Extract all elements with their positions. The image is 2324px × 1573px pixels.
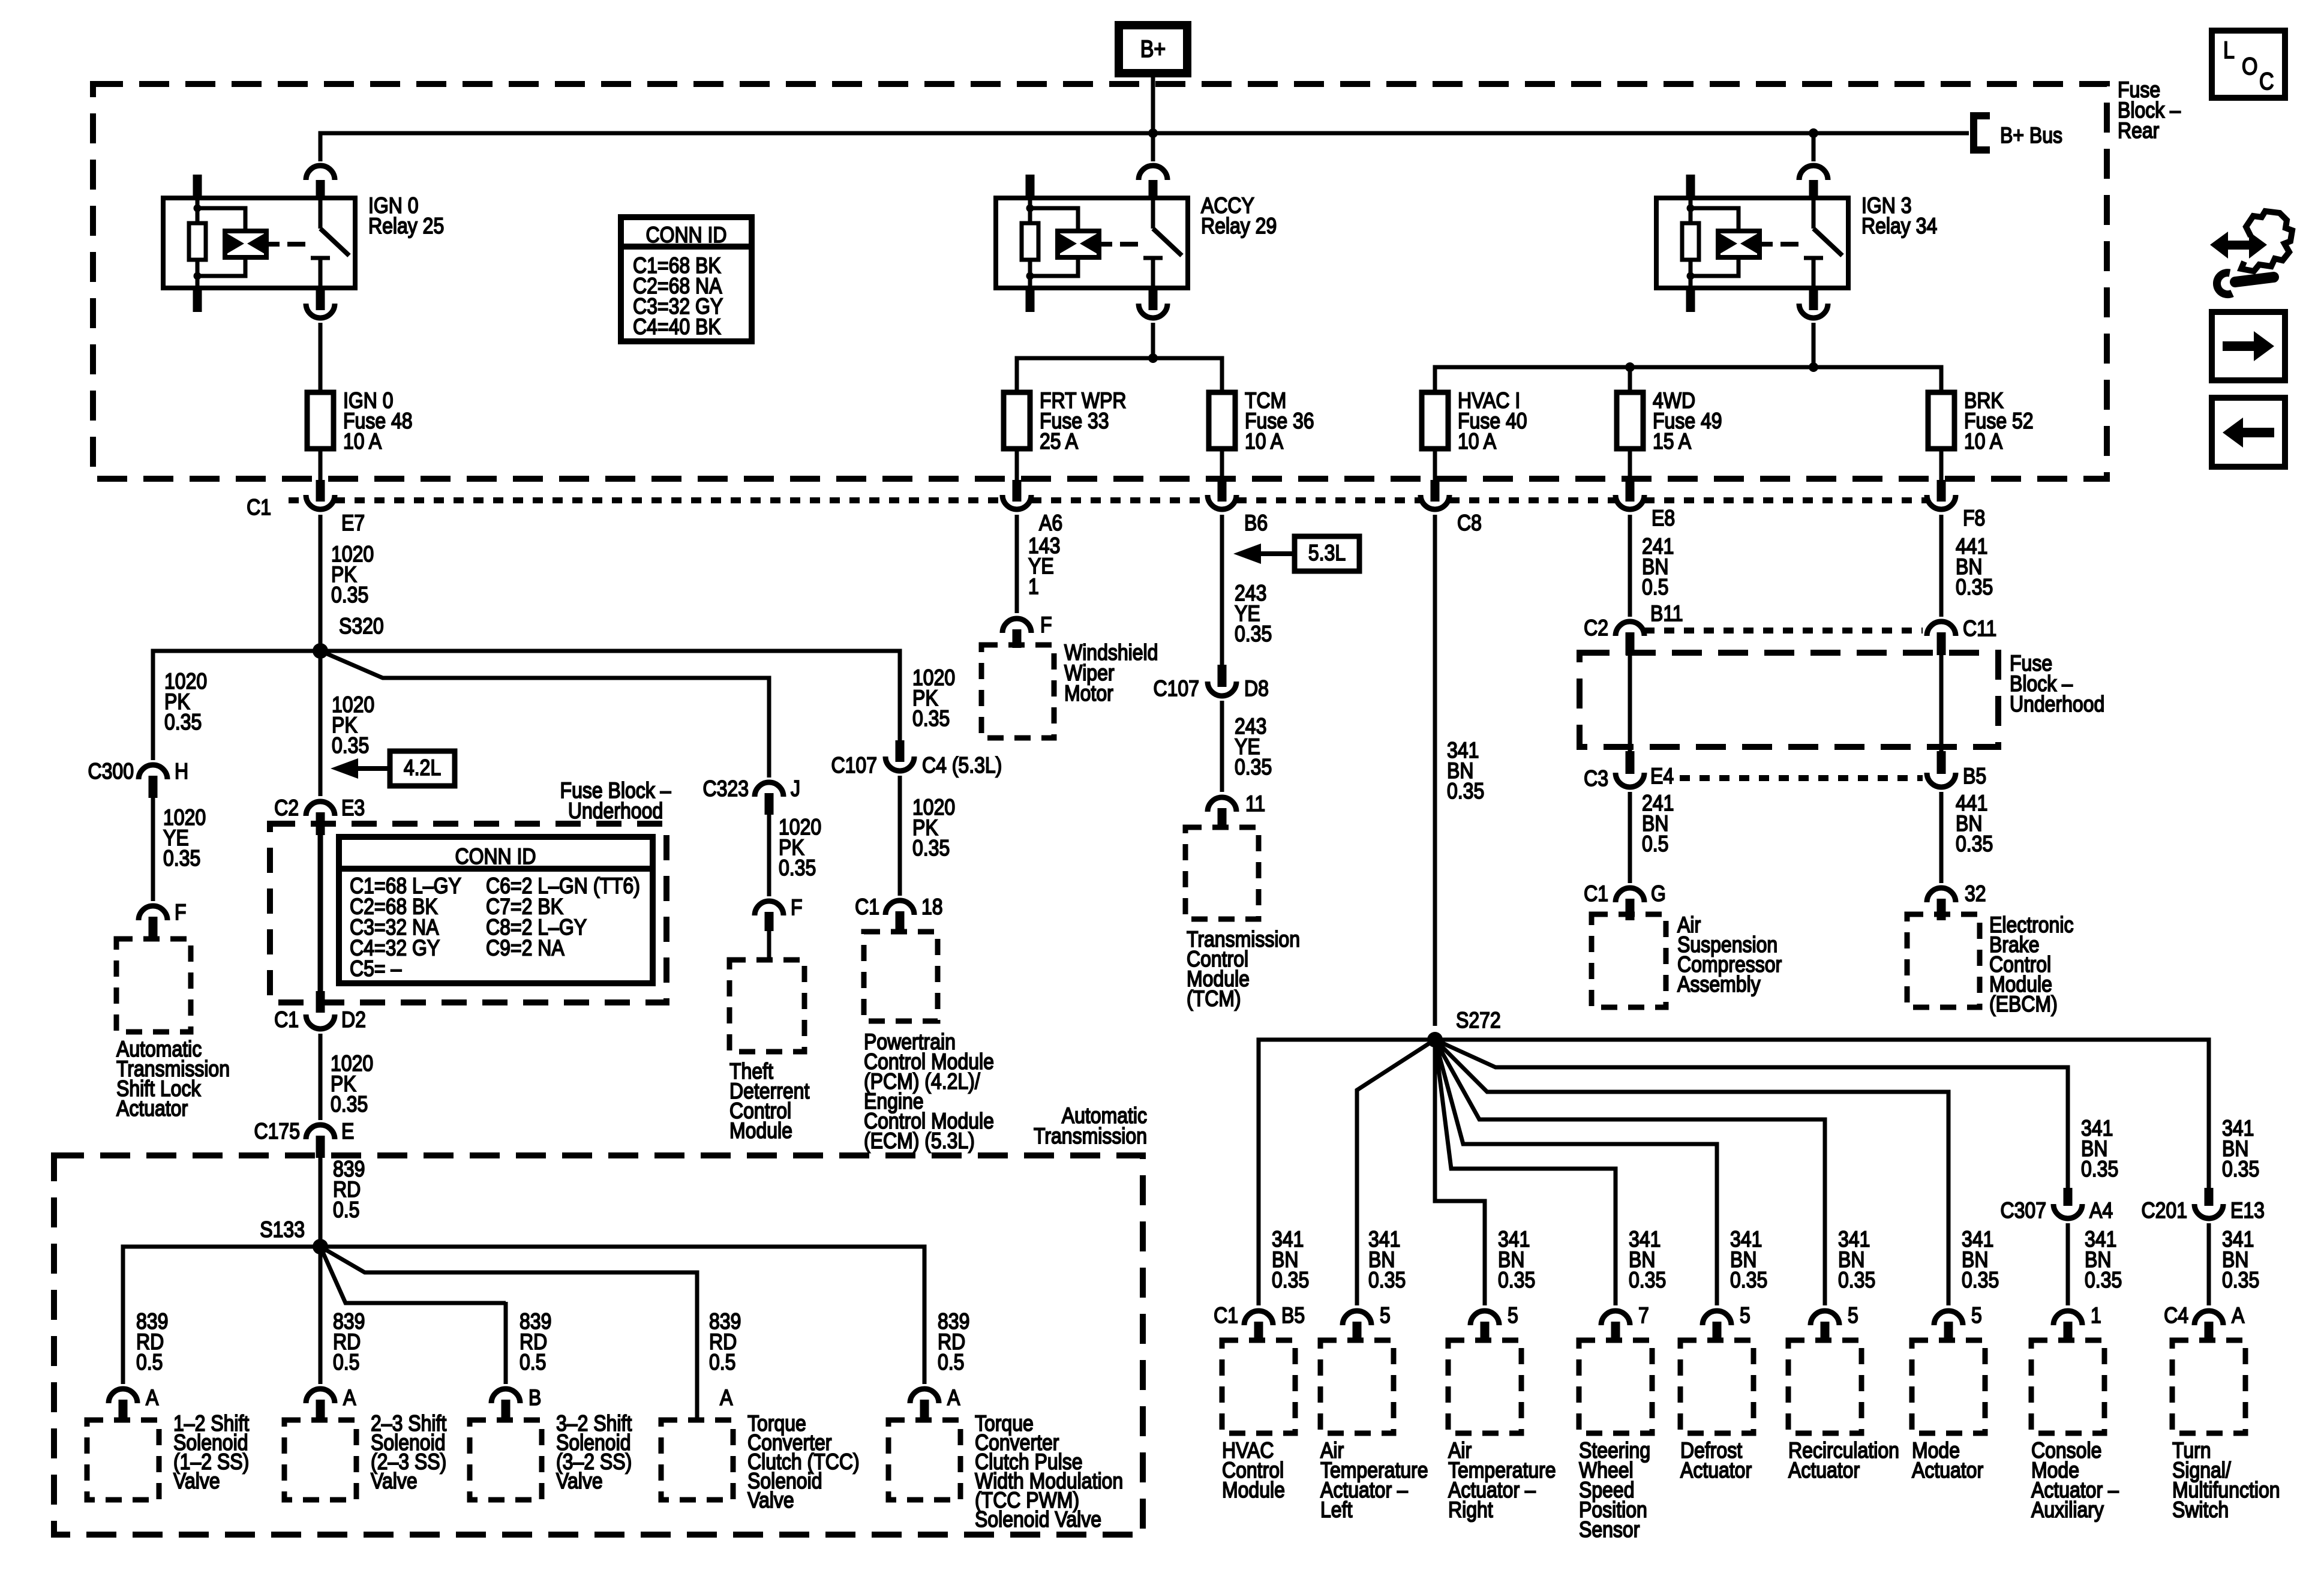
windshield wiper motor label [1064, 640, 1158, 706]
pin stub C2/E3 [316, 812, 325, 835]
svg-text:0.35: 0.35 [912, 836, 950, 861]
svg-text:Transmission: Transmission [1034, 1124, 1147, 1149]
svg-text:10 A: 10 A [343, 429, 382, 454]
svg-text:0.35: 0.35 [1272, 1268, 1309, 1293]
connector 32 EBCM [1927, 888, 1956, 902]
TCC solenoid label [747, 1411, 860, 1513]
pin stub PCM 18 [896, 911, 905, 933]
wire label 341 BN 0.35 [2085, 1227, 2122, 1293]
1-2 shift solenoid label [173, 1411, 250, 1494]
wire bus to IGN3 relay [1812, 133, 1816, 161]
svg-text:18: 18 [921, 894, 943, 920]
svg-text:C4: C4 [2164, 1303, 2188, 1328]
svg-text:B6: B6 [1244, 511, 1268, 536]
theft deterrent label [729, 1059, 810, 1143]
pin stub F theft [765, 912, 774, 931]
connector C1/E7 [306, 495, 335, 509]
wire label 341 BN 0.35 [1498, 1227, 1535, 1293]
wire C323 to theft F [767, 815, 771, 896]
svg-text:Assembly: Assembly [1677, 972, 1761, 997]
connector pin A 1-2 shift solenoid [109, 1389, 137, 1403]
svg-text:0.5: 0.5 [709, 1350, 735, 1375]
wire S133 to 3-2 shift solenoid [320, 1247, 506, 1303]
junction dot 4wd feed [1625, 362, 1635, 372]
connector C8 [1421, 495, 1449, 509]
wire F8 down [1939, 515, 1944, 617]
svg-text:5: 5 [1380, 1303, 1391, 1328]
svg-text:0.35: 0.35 [1235, 755, 1272, 780]
svg-text:C2: C2 [1584, 616, 1608, 641]
wire label 1020 PK 0.35 (S320-C107) [912, 665, 955, 731]
wire S272 to turn signal C201 [1435, 1040, 2209, 1190]
wire label 839 RD 0.5 (C175-S133) [333, 1157, 365, 1223]
svg-text:J: J [791, 776, 800, 801]
connector pin 5 Defrost Actuator [1703, 1311, 1731, 1325]
svg-text:L: L [2223, 37, 2235, 64]
wire 1-2 down [121, 1302, 125, 1384]
svg-text:Auxiliary: Auxiliary [2031, 1497, 2104, 1523]
svg-text:0.35: 0.35 [1956, 831, 1993, 857]
svg-text:G: G [1651, 881, 1666, 906]
wire relay25 to fuse48 [319, 323, 323, 392]
pin stub C323/J [765, 793, 774, 815]
connector pin A 2-3 shift solenoid [306, 1389, 335, 1403]
svg-text:Relay 25: Relay 25 [368, 214, 444, 239]
fuse 52 BRK 10A [1928, 392, 1954, 449]
svg-text:S272: S272 [1456, 1008, 1501, 1033]
pin stub C11 [1937, 632, 1946, 655]
svg-text:0.35: 0.35 [912, 706, 950, 731]
pin stub B11 [1626, 632, 1635, 655]
connector C107/D8 [1208, 682, 1236, 696]
Recirculation Actuator box [1788, 1340, 1861, 1433]
svg-text:C8: C8 [1457, 511, 1482, 536]
wire label 143 YE 1 [1028, 533, 1060, 599]
pin stub Air Temperature Actuator - Left [1353, 1322, 1362, 1342]
back page arrow box [2212, 398, 2285, 467]
wire S272 to steering wheel sensor [1435, 1040, 1616, 1305]
connector C300/H [139, 765, 167, 779]
svg-text:B+: B+ [1140, 36, 1166, 62]
Automatic Transmission dashed boundary [54, 1155, 1143, 1535]
svg-text:0.35: 0.35 [1235, 622, 1272, 647]
svg-text:0.35: 0.35 [2222, 1157, 2259, 1182]
connector C175/E [306, 1125, 335, 1139]
wire label 1020 PK 0.35 (S320-C2/E3) [332, 692, 374, 758]
wire bus to ACCY relay [1151, 133, 1155, 161]
wire S133 to TCC PWM solenoid [320, 1247, 924, 1384]
svg-text:F8: F8 [1963, 506, 1985, 531]
Fuse Block - Underhood dashed boundary (right) [1580, 653, 1998, 747]
svg-text:CONN ID: CONN ID [455, 844, 536, 869]
pin stub fuse33/A6 [1013, 480, 1022, 502]
wire label 839 RD 0.5 [520, 1309, 551, 1375]
3-2 shift solenoid box [470, 1420, 542, 1500]
connector C1/18 PCM [885, 900, 914, 915]
wire S272 to recirculation actuator [1435, 1040, 1825, 1305]
wire label 1020 YE 0.35 [163, 805, 206, 871]
svg-text:Valve: Valve [371, 1469, 418, 1494]
wire label 1020 PK 0.35 (C4-18) [912, 795, 955, 861]
2-3 shift solenoid box [284, 1420, 356, 1500]
svg-text:C107: C107 [1154, 676, 1199, 701]
wire label 243 YE 0.35 (B6-D8) [1235, 581, 1272, 647]
B+ power terminal [1119, 25, 1187, 73]
connector F shift lock [139, 906, 167, 920]
PCM/ECM label [864, 1029, 994, 1154]
connector pin B 3-2 shift solenoid [491, 1389, 520, 1403]
connector C1/G [1616, 888, 1644, 902]
relay 34 IGN 3 [1656, 166, 1848, 318]
svg-text:D2: D2 [341, 1007, 366, 1032]
wire label 341 BN 0.35 (S272-C307) [2081, 1116, 2118, 1182]
pin stub fuse52/F8 [1937, 480, 1946, 502]
callout 5.3L [1233, 536, 1359, 571]
svg-text:0.5: 0.5 [333, 1197, 359, 1223]
svg-text:1: 1 [2091, 1303, 2101, 1328]
wire label 241 BN 0.5 (E4-G) [1642, 791, 1674, 857]
svg-text:E: E [341, 1119, 354, 1144]
wire label 839 RD 0.5 [709, 1309, 741, 1375]
Defrost Actuator box [1680, 1340, 1753, 1433]
pin stub fuse49/E8 [1626, 480, 1635, 502]
connector pin 5 Air Temperature Actuator - Right [1470, 1311, 1499, 1325]
wire S320 to C300 [153, 651, 320, 760]
transmission control module box [1185, 827, 1259, 919]
svg-text:C1: C1 [274, 1007, 299, 1032]
B+ bus wire [320, 133, 1969, 161]
connector pin A Turn Signal/Multifunction Switch [2194, 1311, 2223, 1325]
svg-text:Underhood: Underhood [568, 798, 663, 824]
svg-text:C: C [2259, 68, 2274, 95]
pin stub Steering Wheel Speed Position Sensor [1611, 1322, 1620, 1342]
wire B+ to bus [1151, 73, 1155, 133]
pin stub Recirculation Actuator [1821, 1322, 1830, 1342]
svg-text:A: A [720, 1385, 733, 1410]
svg-text:0.35: 0.35 [1838, 1268, 1875, 1293]
wire label 1020 PK 0.35 (S320-C300) [164, 669, 207, 735]
wire F into theft module [767, 931, 771, 960]
pin stub Turn Signal/Multifunction Switch [2205, 1322, 2214, 1342]
svg-text:0.35: 0.35 [1730, 1268, 1767, 1293]
wire 3-2 shift down [504, 1303, 508, 1384]
wire S133 to TCC solenoid [320, 1247, 697, 1420]
shift lock actuator label [116, 1037, 230, 1121]
svg-text:A4: A4 [2089, 1198, 2113, 1223]
svg-text:B: B [529, 1385, 541, 1410]
wire fuse52 down [1939, 449, 1944, 480]
svg-text:5: 5 [1740, 1303, 1750, 1328]
svg-text:11: 11 [1245, 791, 1265, 816]
svg-text:E3: E3 [341, 795, 365, 821]
wire to fuse49 [1628, 367, 1632, 392]
pin stub fuse40/C8 [1431, 480, 1440, 502]
connector B6 [1208, 495, 1236, 509]
svg-text:0.5: 0.5 [333, 1350, 359, 1375]
connector C107/C4 (5.3L) [885, 757, 914, 771]
svg-text:Valve: Valve [747, 1488, 794, 1513]
Air Temperature Actuator - Left box [1320, 1340, 1394, 1433]
svg-text:0.35: 0.35 [2085, 1268, 2122, 1293]
connector pin B5 HVAC Control Module [1244, 1311, 1273, 1325]
svg-text:10 A: 10 A [1245, 429, 1284, 454]
svg-text:0.35: 0.35 [163, 846, 200, 871]
svg-text:0.35: 0.35 [331, 1092, 368, 1117]
svg-text:Actuator: Actuator [1680, 1458, 1752, 1483]
wire label 839 RD 0.5 [136, 1309, 168, 1375]
Defrost Actuator label [1680, 1438, 1752, 1483]
connector C1/D2 [306, 1014, 335, 1029]
wire through fuse block (441) [1939, 655, 1944, 751]
connector C307/A4 [2053, 1204, 2082, 1218]
Fuse Block - Rear label [2118, 77, 2181, 143]
connector 11 TCM [1208, 797, 1236, 812]
svg-text:Relay 34: Relay 34 [1861, 214, 1937, 239]
dotted boundary B11-C11 [1644, 628, 1923, 634]
svg-text:4.2L: 4.2L [404, 755, 441, 781]
svg-text:C307: C307 [2001, 1198, 2046, 1223]
svg-text:Module: Module [1222, 1478, 1285, 1503]
svg-text:C201: C201 [2142, 1198, 2187, 1223]
wire feed fuses 33/36 [1017, 358, 1222, 392]
wire through underhood fuse block [318, 835, 323, 991]
Fuse Block - Underhood dashed boundary (left) [270, 824, 666, 1002]
wire label 1020 PK 0.35 (E7-S320) [331, 542, 374, 608]
svg-text:A6: A6 [1039, 511, 1062, 536]
svg-text:Actuator: Actuator [116, 1096, 188, 1121]
svg-text:(EBCM): (EBCM) [1989, 992, 2058, 1017]
power distribution icon (arrow/part/wrench) [2210, 211, 2292, 295]
connector A6 [1002, 495, 1031, 509]
wire S320 to C107/C4 [320, 651, 900, 740]
wire D8 to TCM 11 [1220, 701, 1224, 792]
wire S272 to HVAC control module [1259, 1040, 1435, 1305]
svg-text:25 A: 25 A [1040, 429, 1079, 454]
svg-text:E13: E13 [2230, 1198, 2265, 1223]
pin stub fuse48/E7 [316, 480, 325, 502]
svg-text:5: 5 [1971, 1303, 1982, 1328]
pin stub C3 [1626, 751, 1635, 774]
pin stub HVAC Control Module [1254, 1322, 1263, 1342]
svg-text:C1: C1 [855, 894, 879, 920]
wire 2-3 down [319, 1302, 323, 1384]
svg-text:C11: C11 [1963, 616, 1996, 641]
svg-text:A: A [2232, 1303, 2245, 1328]
svg-text:Valve: Valve [556, 1469, 603, 1494]
svg-text:C1: C1 [247, 495, 271, 520]
Automatic Transmission label [1034, 1103, 1147, 1149]
wire label 341 BN 0.35 [1272, 1227, 1309, 1293]
air suspension label [1677, 912, 1782, 997]
wire label 341 BN 0.35 [1962, 1227, 1999, 1293]
svg-text:Actuator: Actuator [1912, 1458, 1983, 1483]
wire relay34 output [1812, 323, 1816, 367]
svg-text:E7: E7 [341, 511, 365, 536]
Mode Actuator box [1912, 1340, 1985, 1433]
CONN ID table (fuse block rear) [621, 217, 752, 341]
wire S272 to console C307 [1435, 1040, 2068, 1190]
wire label 341 BN 0.35 (S272-C201) [2222, 1116, 2259, 1182]
wire label 341 BN 0.35 [1629, 1227, 1666, 1293]
svg-text:Valve: Valve [173, 1469, 220, 1494]
2-3 shift solenoid label [371, 1411, 447, 1494]
junction dot bus/B+ [1148, 128, 1158, 138]
svg-text:0.35: 0.35 [1629, 1268, 1666, 1293]
svg-text:Relay 29: Relay 29 [1201, 214, 1277, 239]
pin stub 32 [1937, 899, 1946, 920]
svg-text:C4 (5.3L): C4 (5.3L) [922, 753, 1002, 778]
wire S272 to defrost actuator [1435, 1040, 1717, 1305]
HVAC Control Module box [1222, 1340, 1295, 1433]
B+ Bus terminal [1974, 116, 2062, 150]
wire B6 down [1220, 515, 1224, 665]
electronic brake control module box [1907, 914, 1980, 1007]
forward page arrow box [2212, 312, 2285, 380]
svg-text:0.35: 0.35 [1447, 779, 1484, 804]
svg-text:A: A [343, 1385, 356, 1410]
HVAC Control Module label [1222, 1438, 1285, 1503]
LOC icon box [2212, 31, 2285, 98]
TCC solenoid box [661, 1420, 733, 1500]
wire E4 to air suspension G [1628, 792, 1632, 883]
connector C201/E13 [2194, 1204, 2223, 1218]
splice S272 [1427, 1032, 1443, 1047]
svg-text:Left: Left [1320, 1497, 1353, 1523]
Console Mode Actuator - Auxiliary label [2031, 1438, 2119, 1523]
wire E7 to S320 [319, 515, 323, 651]
connector C323/J [755, 782, 783, 797]
wire A4 down [2066, 1223, 2070, 1305]
svg-text:15 A: 15 A [1653, 429, 1692, 454]
pin stub Mode Actuator [1944, 1322, 1953, 1342]
wire D2 to C175 [319, 1034, 323, 1120]
3-2 shift solenoid label [556, 1411, 632, 1494]
svg-text:Sensor: Sensor [1579, 1517, 1640, 1542]
pin stub TCC PWM solenoid [920, 1400, 929, 1422]
svg-text:0.5: 0.5 [136, 1350, 163, 1375]
splice S320 [313, 643, 328, 659]
svg-text:Module: Module [729, 1118, 792, 1143]
svg-text:0.35: 0.35 [1956, 575, 1993, 600]
svg-text:C3: C3 [1584, 766, 1608, 791]
pin stub 2-3 shift solenoid [316, 1400, 325, 1422]
splice S133 [313, 1239, 328, 1254]
svg-text:(TCM): (TCM) [1187, 986, 1241, 1011]
pin stub Defrost Actuator [1713, 1322, 1722, 1342]
wire label 839 RD 0.5 [938, 1309, 969, 1375]
svg-text:0.5: 0.5 [1642, 575, 1668, 600]
wire fuse49 down [1628, 449, 1632, 480]
wire fuse48 down [319, 449, 323, 480]
wire label 441 BN 0.35 (B5-32) [1956, 791, 1993, 857]
svg-text:H: H [175, 759, 188, 784]
relay 25 IGN 0 [163, 166, 355, 318]
TCC PWM solenoid box [888, 1420, 960, 1500]
wire B5 to EBCM 32 [1939, 792, 1944, 883]
fuse 48 IGN 0 10A [307, 392, 334, 449]
wire S320 to C323 [320, 651, 769, 778]
Recirculation Actuator label [1788, 1438, 1899, 1483]
svg-text:0.35: 0.35 [1368, 1268, 1406, 1293]
svg-text:F: F [791, 895, 803, 920]
wire S272 to air temp right [1435, 1040, 1485, 1305]
pin stub C307 [2064, 1188, 2073, 1206]
Fuse Block - Underhood label [560, 778, 671, 824]
svg-text:S320: S320 [339, 614, 384, 639]
Air Temperature Actuator - Right box [1448, 1340, 1521, 1433]
wire label 341 BN 0.35 [2222, 1227, 2259, 1293]
vehicle harness dotted boundary [289, 497, 305, 503]
svg-text:C2: C2 [274, 795, 299, 821]
Steering Wheel Speed Position Sensor label [1579, 1438, 1650, 1542]
wire relay29 output [1151, 323, 1155, 358]
svg-text:C9=2 NA: C9=2 NA [486, 935, 565, 960]
pin stub C107/C4 [896, 740, 905, 762]
wire label 1020 PK 0.35 (C323-F) [779, 815, 821, 881]
pin stub TCM 11 [1218, 808, 1227, 829]
svg-text:0.35: 0.35 [332, 733, 369, 758]
junction dot bus/IGN3 relay [1809, 128, 1818, 138]
svg-text:S133: S133 [260, 1217, 305, 1242]
svg-text:32: 32 [1965, 881, 1986, 906]
dotted boundary C3-B5 [1680, 775, 1923, 781]
wire E8 down [1628, 515, 1632, 617]
svg-text:Rear: Rear [2118, 118, 2160, 143]
svg-text:CONN ID: CONN ID [645, 223, 726, 248]
svg-text:0.35: 0.35 [2081, 1157, 2118, 1182]
svg-text:C1: C1 [1214, 1303, 1238, 1328]
svg-text:F: F [1040, 613, 1052, 638]
svg-text:0.5: 0.5 [520, 1350, 546, 1375]
Mode Actuator label [1912, 1438, 1983, 1483]
svg-text:F: F [175, 900, 187, 925]
splice S320 label [339, 614, 384, 639]
svg-text:10 A: 10 A [1458, 429, 1497, 454]
pin stub C107/D8 [1218, 665, 1227, 687]
svg-text:0.35: 0.35 [164, 710, 202, 735]
svg-text:0.35: 0.35 [779, 855, 816, 881]
wire label 341 BN 0.35 [1838, 1227, 1875, 1293]
svg-text:Right: Right [1448, 1497, 1493, 1523]
svg-text:C5= –: C5= – [350, 956, 402, 981]
connector B5 [1927, 773, 1956, 787]
svg-text:0.5: 0.5 [938, 1350, 964, 1375]
air suspension compressor assembly box [1592, 914, 1666, 1007]
wire S272 to mode actuator [1435, 1040, 1948, 1305]
svg-text:0.35: 0.35 [331, 583, 368, 608]
wire S320 to C2/E3 [319, 651, 323, 796]
theft deterrent control module box [729, 960, 804, 1052]
wire label 241 BN 0.5 (E8-B11) [1642, 534, 1674, 600]
svg-text:C323: C323 [703, 776, 749, 801]
wire feed fuses 40/49/52 [1435, 367, 1941, 392]
wire label 341 BN 0.35 [1730, 1227, 1767, 1293]
pin stub 3-2 shift solenoid [502, 1400, 511, 1422]
Console Mode Actuator - Auxiliary box [2031, 1340, 2104, 1433]
connector C2/B11 [1616, 622, 1644, 636]
connector C2/E3 [306, 801, 335, 816]
connector C3/E4 [1616, 773, 1644, 787]
wire through fuse block (241) [1628, 655, 1632, 751]
Turn Signal/Multifunction Switch box [2172, 1340, 2245, 1433]
svg-text:Switch: Switch [2172, 1497, 2229, 1523]
Steering Wheel Speed Position Sensor box [1579, 1340, 1652, 1433]
wire S133 to 2-3 shift solenoid [319, 1247, 323, 1302]
fuse 33 FRT WPR 25A [1004, 392, 1030, 449]
relay 29 ACCY [996, 166, 1188, 318]
svg-text:10 A: 10 A [1964, 429, 2003, 454]
pin stub Air Temperature Actuator - Right [1481, 1322, 1490, 1342]
